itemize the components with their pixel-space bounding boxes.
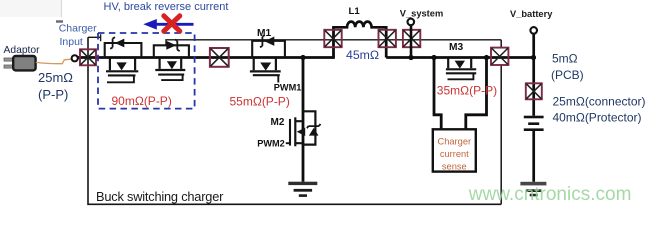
reverse current arrow (blue) bbox=[143, 19, 193, 30]
svg-text:(P-P): (P-P) bbox=[38, 87, 68, 102]
ground for M2 bbox=[288, 182, 317, 197]
body diode of Q1 (points left) bbox=[115, 39, 124, 48]
svg-text:55mΩ(P-P): 55mΩ(P-P) bbox=[230, 94, 290, 108]
svg-text:www.cntronics.com: www.cntronics.com bbox=[468, 184, 632, 205]
svg-text:PWM1: PWM1 bbox=[274, 83, 302, 93]
wire: thin bypass line from node between Q1/Q2 to V_battery box bbox=[166, 40, 501, 46]
svg-text:M2: M2 bbox=[271, 117, 285, 128]
resistor: V_system trace (crossed box) bbox=[403, 30, 420, 47]
resistor: L1 trace right (crossed box) bbox=[379, 30, 396, 47]
svg-text:Input: Input bbox=[60, 36, 83, 48]
wire: V_battery column bbox=[532, 34, 535, 116]
resistor: connector/protector (crossed box on battery line) bbox=[526, 83, 542, 99]
wire: main rail from input terminal to L1 bbox=[78, 27, 334, 57]
svg-text:Charger: Charger bbox=[438, 137, 472, 147]
svg-text:Adaptor: Adaptor bbox=[4, 45, 41, 56]
resistor: 5m ohm PCB (crossed box on rail) bbox=[491, 48, 508, 65]
battery symbol bbox=[524, 116, 544, 131]
red X over arrow bbox=[164, 16, 180, 31]
svg-text:sense: sense bbox=[442, 161, 467, 171]
wire: M3 right sense tap bbox=[466, 58, 487, 130]
wire: M2 branch down to ground bbox=[302, 58, 305, 182]
resistor: L1 trace left (crossed box) bbox=[324, 30, 341, 47]
svg-text:25mΩ(connector): 25mΩ(connector) bbox=[553, 94, 646, 108]
svg-text:35mΩ(P-P): 35mΩ(P-P) bbox=[437, 84, 497, 98]
charger current sense block bbox=[433, 129, 476, 171]
node: charger input terminal bbox=[72, 55, 78, 61]
node: V_battery terminal bbox=[530, 27, 537, 34]
adaptor plug icon bbox=[4, 58, 14, 61]
transistor Q1 (left back-to-back FET) bbox=[105, 37, 142, 82]
svg-text:V_battery: V_battery bbox=[510, 9, 553, 19]
svg-text:PWM2: PWM2 bbox=[257, 138, 285, 148]
screenshot artifact top-left bbox=[0, 0, 61, 17]
resistor: 55m ohm (crossed box) bbox=[210, 48, 229, 67]
svg-text:Charger: Charger bbox=[59, 23, 97, 35]
node junction at M2 branch bbox=[300, 55, 305, 60]
svg-text:25mΩ: 25mΩ bbox=[38, 70, 73, 85]
ground for battery bbox=[520, 182, 546, 197]
body diode of Q2 (points right) bbox=[166, 41, 176, 50]
body diode of M2 (points up) bbox=[303, 111, 315, 144]
inductor L1 bbox=[334, 22, 387, 58]
svg-text:Buck switching charger: Buck switching charger bbox=[96, 189, 224, 204]
wire: main rail from L1 to V_battery line bbox=[386, 56, 533, 59]
transistor Q2 (right back-to-back FET) bbox=[154, 40, 189, 81]
svg-text:90mΩ(P-P): 90mΩ(P-P) bbox=[112, 94, 172, 108]
wire: adaptor cord (orange) bbox=[36, 59, 72, 64]
svg-text:40mΩ(Protector): 40mΩ(Protector) bbox=[553, 111, 642, 125]
body diode of M1 (points left) bbox=[264, 37, 274, 46]
transistor M1 bbox=[250, 35, 285, 82]
transistor M2 (low side) bbox=[286, 111, 321, 146]
svg-text:(PCB): (PCB) bbox=[551, 68, 584, 82]
charger boundary box (Buck switching charger outline) bbox=[88, 37, 501, 204]
HV protection block (dashed box) bbox=[98, 33, 195, 109]
svg-text:HV, break reverse current: HV, break reverse current bbox=[104, 1, 229, 13]
node: V_system terminal bbox=[408, 19, 415, 26]
transistor M3 bbox=[446, 59, 476, 80]
svg-text:5mΩ: 5mΩ bbox=[552, 52, 578, 66]
resistor: 25m ohm input contact (crossed box) bbox=[80, 49, 96, 65]
wire: V_system drop bbox=[410, 25, 413, 57]
svg-text:current: current bbox=[440, 149, 469, 159]
svg-text:M1: M1 bbox=[257, 28, 271, 39]
svg-text:V_system: V_system bbox=[400, 9, 443, 19]
svg-text:45mΩ: 45mΩ bbox=[346, 48, 379, 62]
svg-text:M3: M3 bbox=[449, 42, 463, 53]
wire: M3 left sense tap bbox=[434, 58, 441, 130]
svg-text:L1: L1 bbox=[349, 6, 361, 17]
